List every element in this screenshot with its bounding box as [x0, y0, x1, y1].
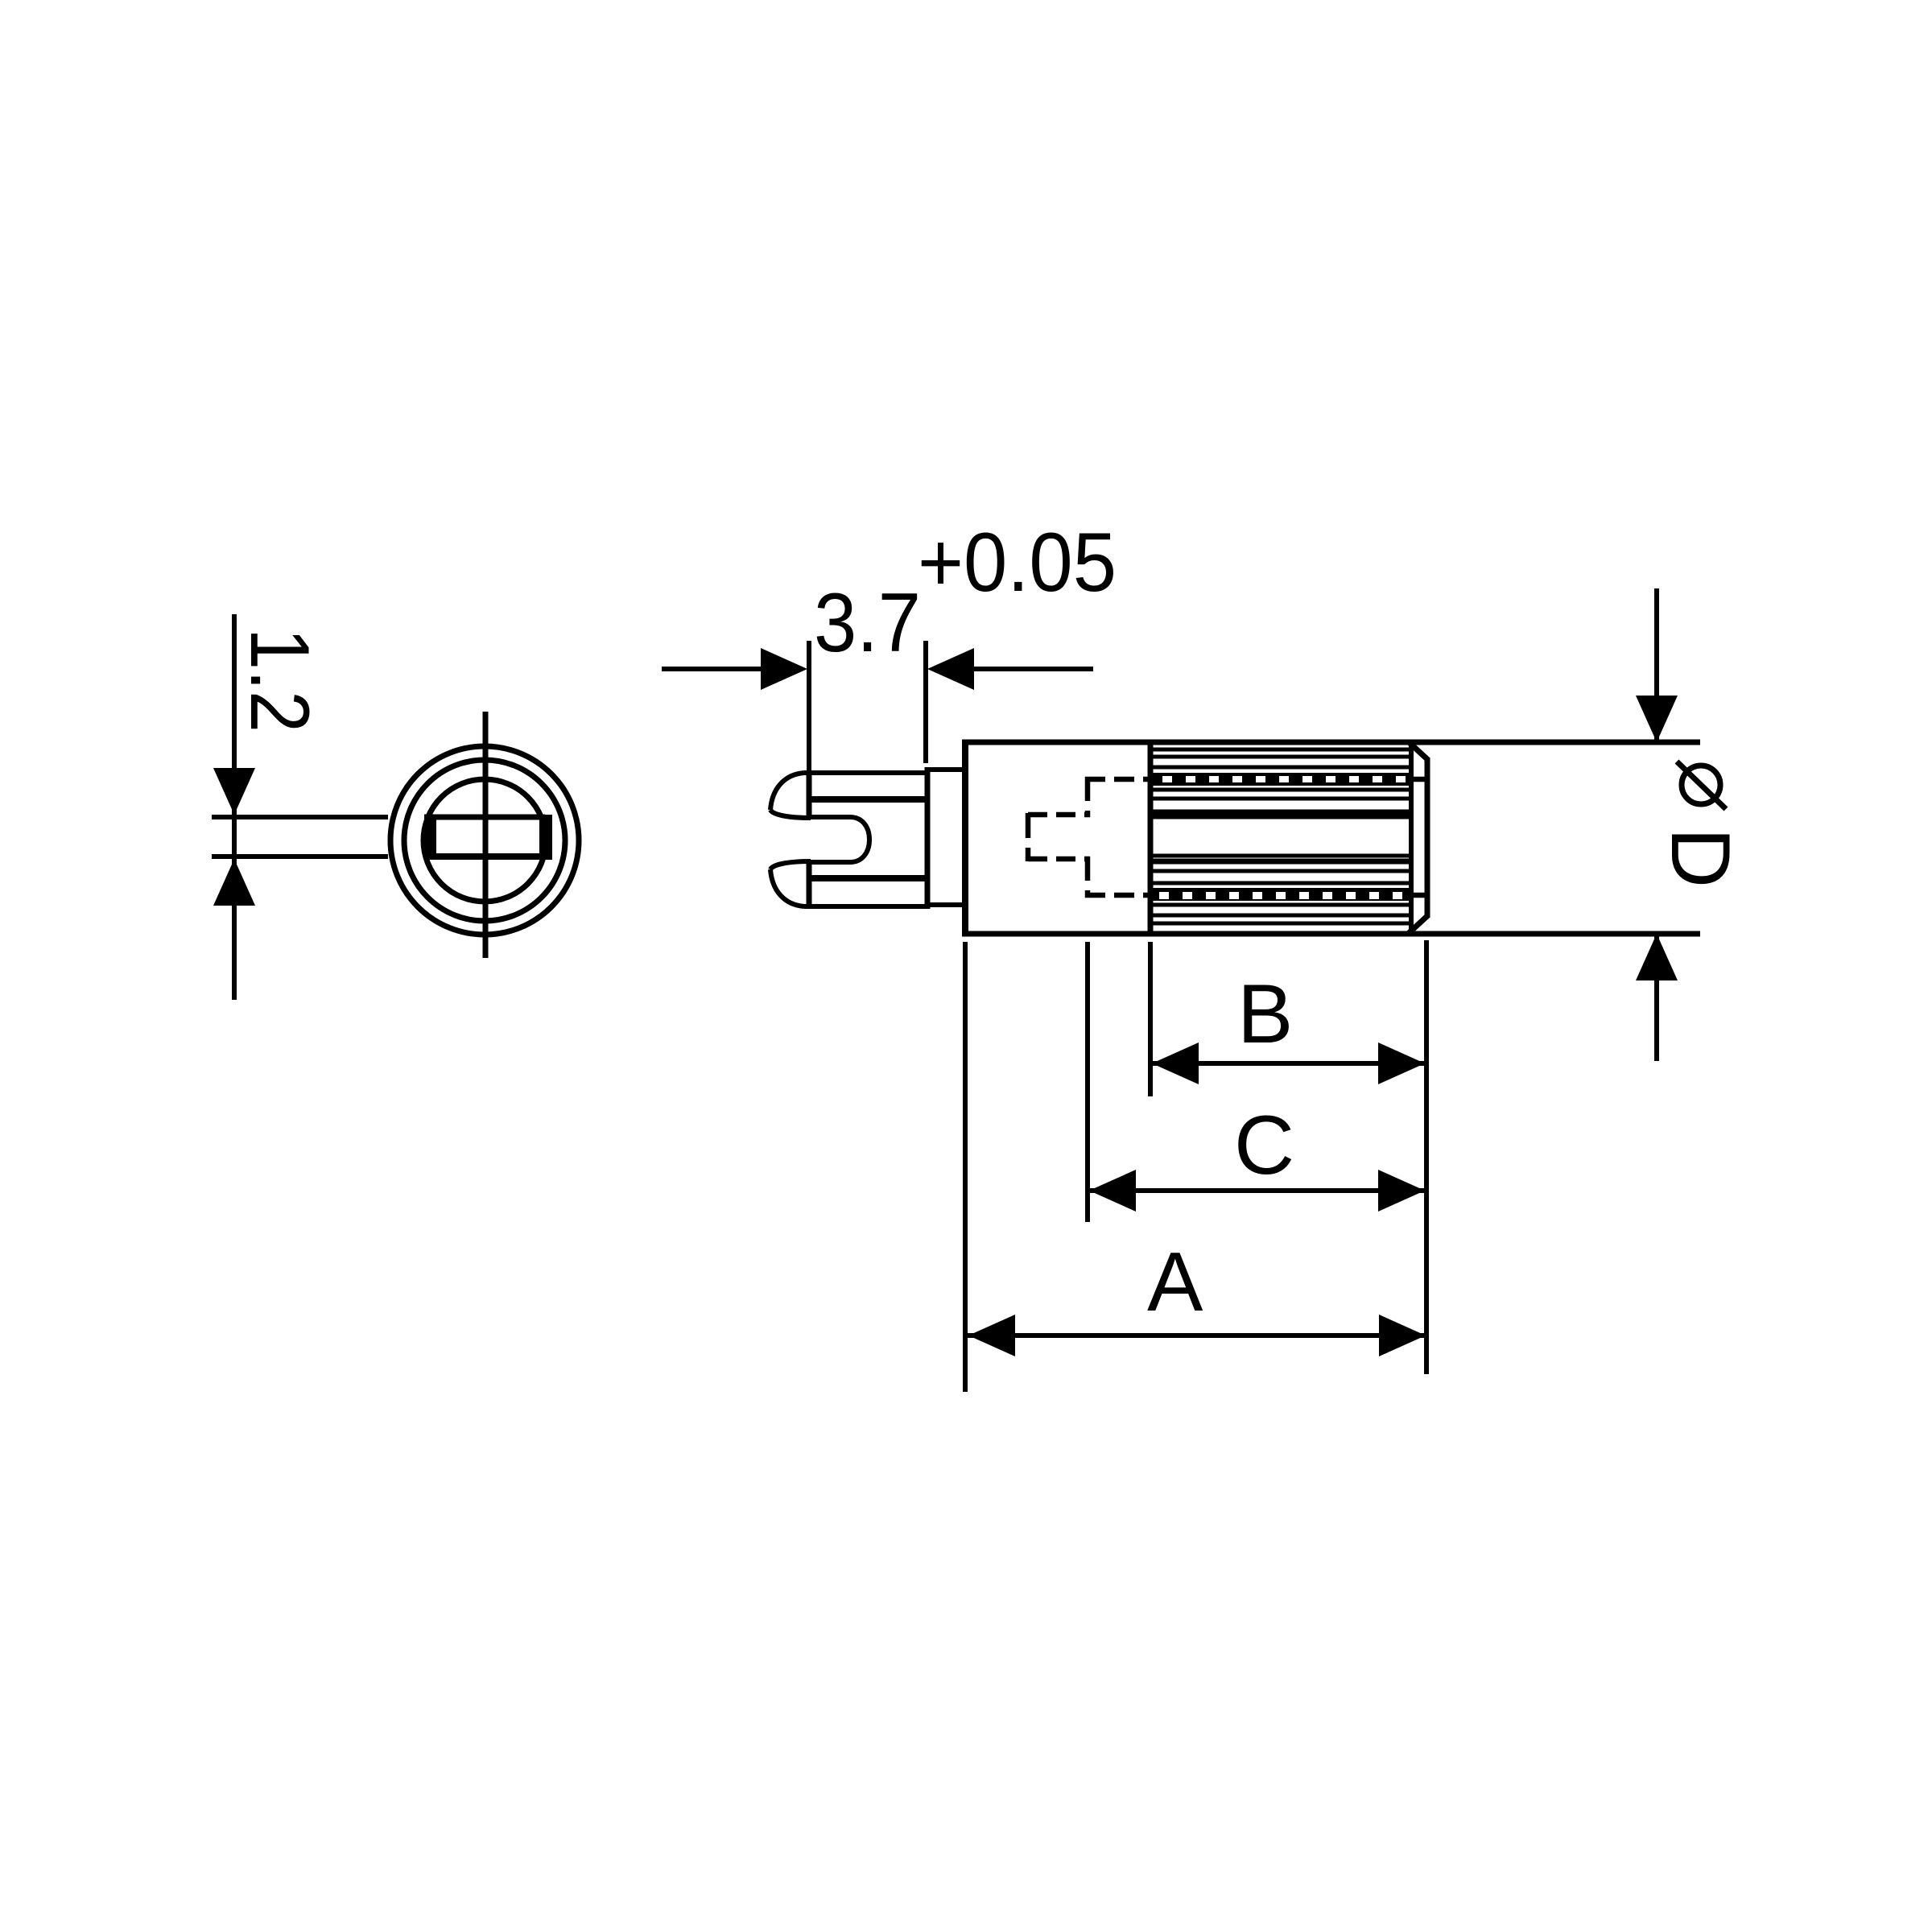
dim B right arrow: [1378, 1042, 1425, 1084]
front view inner circle: [423, 779, 546, 902]
hidden hole dashed bottom line at chamfer: [1411, 893, 1425, 898]
side view fork top prong inner tip arc: [770, 810, 811, 818]
dim D vertical dimension line top: [1654, 588, 1659, 741]
svg-text:A: A: [1147, 1236, 1203, 1329]
front view outer circle: [390, 746, 579, 935]
body right end edge: [1425, 758, 1430, 918]
dim D arrow up: [1636, 934, 1678, 980]
dim B dimension line: [1150, 1061, 1426, 1066]
front view middle circle: [404, 760, 565, 921]
side view slot bottom edge: [811, 860, 850, 865]
svg-text:3.7: 3.7: [814, 576, 921, 670]
side view neck top edge: [927, 767, 965, 772]
dim D vertical dimension line bottom: [1654, 935, 1659, 1061]
side view fork top prong slot wall thick line: [810, 796, 927, 803]
side view slot top edge: [811, 815, 850, 819]
dim A right arrow: [1379, 1315, 1426, 1356]
hidden hole small bore top dashed: [1028, 812, 1090, 818]
knurl lines: [1153, 749, 1410, 923]
hidden hole dashed top line at chamfer: [1411, 777, 1425, 782]
dim 1.2 vertical dimension line: [232, 614, 237, 1000]
side view fork bottom prong inner tip arc: [770, 861, 811, 869]
dim B left arrow: [1152, 1042, 1199, 1084]
hidden hole step vertical dashed upper: [1085, 777, 1091, 817]
dim 1.2 arrow up: [213, 859, 255, 906]
hidden hole small bore end vertical dashed: [1026, 813, 1031, 861]
diameter symbol slash: [1677, 762, 1726, 809]
svg-text:C: C: [1234, 1099, 1294, 1192]
dim 1.2 arrow down: [213, 768, 255, 815]
knurl lower dashed hole band: [1153, 888, 1411, 901]
slot bottom edge front view: [424, 853, 545, 860]
slot right end bar: [539, 815, 552, 860]
dim C dimension line: [1088, 1188, 1426, 1193]
body bottom edge and diameter extension right: [962, 931, 1700, 937]
extension line below body C left: [1085, 942, 1090, 1222]
knurl left boundary line: [1148, 740, 1154, 936]
side view slot rounded end: [850, 817, 869, 862]
side view fork-neck junction line: [925, 767, 931, 909]
side view fork top prong outer tip arc: [770, 773, 804, 810]
side view fork bottom prong slot wall thick line: [810, 875, 927, 881]
chamfer top diagonal: [1408, 741, 1428, 760]
dim 3.7 right extension line: [923, 641, 928, 763]
hidden hole small bore bottom dashed: [1028, 857, 1090, 862]
dim 1.2 extension line bottom: [212, 854, 388, 859]
extension line below body B left: [1148, 942, 1153, 1096]
body top edge and diameter extension right: [962, 740, 1700, 745]
hidden hole dashed top line left of knurl: [1085, 777, 1150, 782]
extension line below body left A: [963, 942, 968, 1392]
svg-text:B: B: [1237, 968, 1293, 1061]
knurl end vertical line: [1409, 741, 1414, 935]
dim A dimension line: [967, 1333, 1427, 1338]
dim C right arrow: [1378, 1170, 1425, 1212]
dim 1.2 extension line top: [212, 815, 388, 819]
dim 3.7 left arrow: [761, 648, 807, 690]
dim 3.7 dimension line right part: [966, 667, 1093, 671]
hidden hole step vertical dashed lower: [1085, 857, 1091, 898]
dim 3.7 dimension line left part: [662, 667, 769, 671]
body left edge: [962, 740, 968, 936]
svg-text:+0.05: +0.05: [918, 516, 1117, 609]
diameter symbol circle: [1682, 766, 1720, 804]
dim C left arrow: [1089, 1170, 1136, 1212]
knurl upper dashed hole band: [1153, 773, 1411, 786]
dim 3.7 left extension line: [807, 641, 811, 771]
svg-text:D: D: [1653, 828, 1747, 888]
dim 3.7 right arrow: [927, 648, 974, 690]
side view fork bottom prong bottom edge: [804, 904, 927, 909]
front view vertical centerline: [483, 712, 489, 958]
hidden hole dashed bottom line left of knurl: [1085, 893, 1150, 898]
dim A left arrow: [968, 1315, 1015, 1356]
side view neck bottom edge: [927, 902, 965, 907]
chamfer bottom diagonal: [1408, 915, 1428, 934]
side view fork bottom prong flat edge: [807, 861, 812, 909]
slot top edge front view: [424, 815, 545, 820]
slot left end bar: [424, 815, 436, 860]
extension line below body right shared: [1424, 940, 1429, 1374]
side view fork top prong top edge: [804, 770, 927, 775]
svg-text:1.2: 1.2: [233, 628, 326, 733]
side view fork top prong flat edge: [807, 770, 812, 818]
dim D arrow down: [1636, 696, 1678, 742]
side view fork bottom prong outer tip arc: [770, 869, 804, 906]
